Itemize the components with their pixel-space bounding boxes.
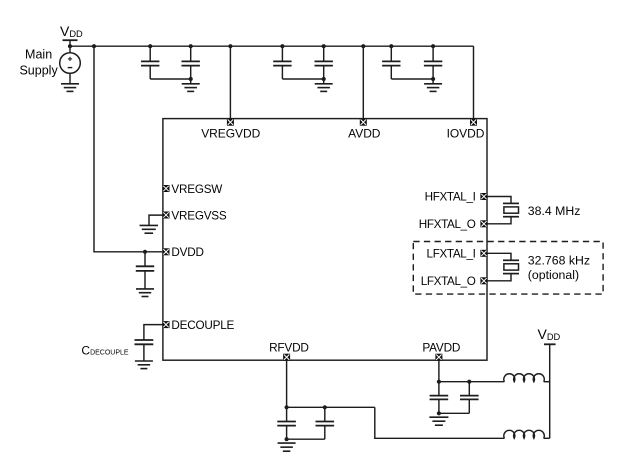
pin LFXTAL_I (480, 250, 487, 257)
wire Y1 (38.4 MHz) output (487, 217, 511, 224)
wire C6 to ground (432, 79, 434, 84)
wire C1-C2 bottom (150, 78, 191, 80)
ground (C11/C12) (429, 417, 448, 425)
svg-text:VDD: VDD (60, 23, 83, 39)
svg-text:HFXTAL_I: HFXTAL_I (425, 191, 476, 204)
pin DVDD (163, 248, 170, 255)
junction rail / C4 (322, 44, 326, 48)
junction PAVDD / C11 (437, 380, 441, 384)
wire Y2 (32.768 kHz) input (487, 253, 511, 260)
wire rail to VREGVDD (229, 46, 231, 119)
capacitor C2 (182, 46, 200, 79)
svg-text:DVDD: DVDD (171, 246, 203, 259)
capacitor C12 (PAVDD) (460, 382, 479, 414)
wire VREGVSS to ground (149, 215, 162, 225)
pin HFXTAL_I (480, 193, 487, 200)
junction PAVDD / C12 (467, 380, 471, 384)
wire C3-C4 bottom (282, 78, 323, 80)
ground (C1/C2) (182, 84, 200, 92)
wire PAVDD stem (438, 361, 440, 382)
pin DECOUPLE (163, 321, 170, 328)
svg-text:IOVDD: IOVDD (447, 127, 485, 141)
wire C9-C10 bottom (287, 438, 325, 440)
wire VDD top rail (70, 45, 474, 47)
svg-text:(optional): (optional) (528, 268, 579, 282)
capacitor C11 (PAVDD) (430, 382, 449, 414)
capacitor C4 (315, 46, 333, 79)
svg-text:Main: Main (25, 48, 52, 62)
pin LFXTAL_O (480, 277, 487, 284)
svg-text:VREGVDD: VREGVDD (201, 127, 260, 141)
power symbol VDD (top-left T-bar) (63, 39, 78, 41)
crystal Y1 (38.4 MHz) (503, 203, 519, 216)
wire L2 to VDD (544, 437, 550, 439)
ground (C5/C6) (424, 84, 442, 92)
svg-text:LFXTAL_O: LFXTAL_O (421, 275, 476, 288)
junction C9 / ground (285, 437, 289, 441)
pin VREGSW (163, 185, 170, 192)
junction rail / C6 (431, 44, 435, 48)
voltage source V1 (Main Supply) (60, 53, 81, 74)
wire RFVDD to L2 (375, 407, 505, 438)
junction rail / AVDD (361, 44, 365, 48)
wire C4 to ground (323, 79, 325, 84)
junction rail / C3 (280, 44, 284, 48)
wire PAVDD to L1 (439, 381, 505, 383)
IC U1 (wireless SoC) (163, 119, 487, 361)
pin HFXTAL_O (480, 220, 487, 227)
pin AVDD (360, 119, 367, 126)
junction C4 / ground (322, 77, 326, 81)
svg-text:LFXTAL_I: LFXTAL_I (427, 247, 476, 260)
capacitor C5 (382, 46, 400, 79)
junction rail / C2 (189, 44, 193, 48)
ground (C7) (136, 289, 154, 297)
wire C5-C6 bottom (391, 78, 433, 80)
wire RFVDD stem (286, 361, 288, 408)
wire Y1 (38.4 MHz) input (487, 197, 511, 204)
wire DECOUPLE to C8 (144, 325, 163, 340)
wire VDD stem to source (69, 40, 71, 53)
capacitor C1 (141, 46, 159, 79)
wire RFVDD node (287, 406, 375, 408)
crystal Y2 (32.768 kHz) (503, 260, 519, 273)
svg-text:DECOUPLE: DECOUPLE (171, 319, 234, 332)
capacitor C10 (RFVDD) (316, 407, 335, 439)
junction RFVDD / C9 (285, 405, 289, 409)
ground (C3/C4) (315, 84, 333, 92)
capacitor C3 (273, 46, 291, 79)
svg-text:Supply: Supply (19, 64, 58, 78)
capacitor C9 (RFVDD) (277, 407, 296, 439)
junction rail / C5 (389, 44, 393, 48)
junction C2 / ground (189, 77, 193, 81)
svg-text:HFXTAL_O: HFXTAL_O (419, 218, 476, 231)
wire source to ground (69, 73, 71, 83)
wire rail to AVDD (362, 46, 364, 119)
junction rail / DVDD branch (92, 44, 96, 48)
junction C6 / ground (431, 77, 435, 81)
svg-text:38.4 MHz: 38.4 MHz (528, 204, 581, 218)
junction VDD rail / source (68, 44, 72, 48)
wire rail to IOVDD (473, 46, 475, 119)
junction RFVDD / C10 (323, 405, 327, 409)
ground (C8) (135, 361, 153, 369)
svg-text:VREGVSS: VREGVSS (171, 209, 227, 222)
ground (main supply) (61, 84, 79, 92)
capacitor C6 (424, 46, 442, 79)
power symbol VDD (bottom-right T-bar) (544, 343, 556, 345)
inductor L2 (RF choke) (504, 430, 544, 438)
junction DVDD wire / C7 (143, 250, 147, 254)
svg-text:VDD: VDD (538, 326, 561, 342)
junction rail / C1 (148, 44, 152, 48)
pin IOVDD (470, 119, 477, 126)
svg-text:32.768 kHz: 32.768 kHz (528, 254, 590, 268)
svg-text:CDECOUPLE: CDECOUPLE (81, 344, 129, 358)
wire C11-C12 bottom (439, 412, 469, 414)
svg-text:AVDD: AVDD (348, 127, 381, 141)
inductor L1 (PAVDD choke) (504, 374, 544, 382)
junction C11 / ground (437, 411, 441, 415)
junction rail / VREGVDD (228, 44, 232, 48)
pin VREGVDD (227, 119, 234, 126)
svg-text:VREGSW: VREGSW (171, 183, 222, 196)
wire C2 to ground (190, 79, 192, 84)
svg-text:PAVDD: PAVDD (422, 341, 460, 355)
ground (C9/C10) (278, 443, 296, 451)
svg-text:RFVDD: RFVDD (269, 341, 309, 355)
wire Y2 (32.768 kHz) output (487, 274, 511, 281)
wire VDD vertical (bottom-right) (549, 344, 551, 438)
pin VREGVSS (163, 212, 170, 219)
pin PAVDD (435, 354, 442, 361)
pin RFVDD (283, 354, 290, 361)
wire rail to DVDD pin (94, 46, 162, 252)
optional LFXTAL dashed box (413, 242, 603, 295)
capacitor C7 (DVDD) (136, 252, 154, 289)
capacitor C8 (CDECOUPLE) (135, 339, 154, 361)
ground (VREGVSS) (140, 225, 159, 233)
wire L1 to VDD (544, 381, 550, 383)
